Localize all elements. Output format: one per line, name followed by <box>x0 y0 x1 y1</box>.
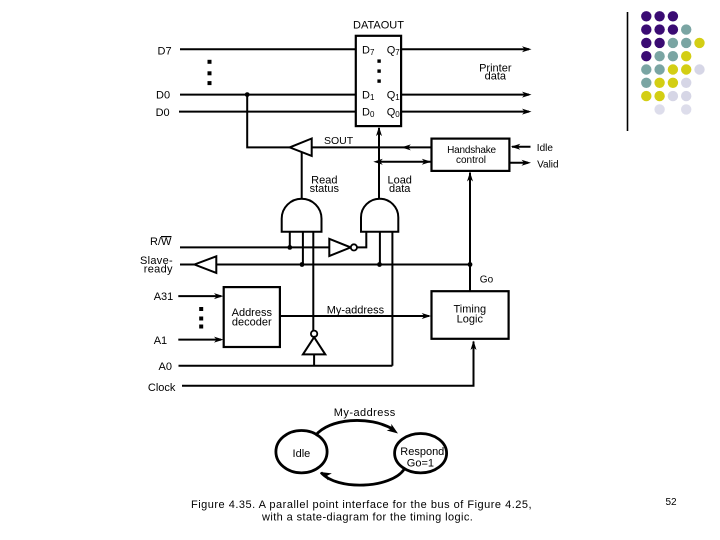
wire D0 (bit 1 row) <box>156 89 356 101</box>
svg-text:A0: A0 <box>159 361 172 373</box>
wire Go horizontal (slave-ready net) <box>216 262 470 267</box>
wire Q1 printer data <box>401 92 531 98</box>
svg-text:Go=1: Go=1 <box>407 458 434 470</box>
wire A31 <box>154 291 224 303</box>
wire load-data gate output to register clock <box>376 127 382 199</box>
svg-text:D7: D7 <box>158 46 172 58</box>
decoration: vertical rule and dot grid (template) <box>628 11 705 131</box>
wire A0 <box>159 361 393 373</box>
and-gate Read status <box>282 174 340 232</box>
svg-text:52: 52 <box>666 497 678 508</box>
address decoder box <box>224 287 280 347</box>
svg-text:D0: D0 <box>156 107 170 119</box>
buffer slave-ready driver <box>195 256 217 273</box>
wire Clock <box>148 341 477 395</box>
svg-text:A31: A31 <box>154 291 174 303</box>
svg-text:status: status <box>310 183 340 195</box>
svg-text:My-address: My-address <box>327 305 385 317</box>
svg-text:Idle: Idle <box>537 143 554 154</box>
wire SOUT feedback to D0 <box>247 95 290 148</box>
svg-text:with a state-diagram for the t: with a state-diagram for the timing logi… <box>261 512 473 524</box>
transition return (bottom arc) <box>318 468 404 485</box>
inverter on A0 <box>303 331 325 366</box>
svg-text:A1: A1 <box>154 335 167 347</box>
wire read gate input C (to A0 inverter) <box>312 232 314 331</box>
wire read gate enable to tri-state <box>301 153 303 199</box>
svg-text:data: data <box>485 70 507 82</box>
state Idle <box>276 431 327 473</box>
inverter on R/W <box>329 239 357 256</box>
wire Q0 printer data <box>401 109 531 115</box>
and-gate Load data <box>361 174 412 232</box>
wire Valid output <box>509 160 558 171</box>
svg-text:decoder: decoder <box>232 316 272 328</box>
svg-text:Valid: Valid <box>537 160 559 171</box>
svg-text:DATAOUT: DATAOUT <box>353 19 404 31</box>
transition My-address (top arc) <box>316 407 401 437</box>
wire A1 <box>154 335 224 347</box>
svg-text:control: control <box>456 155 486 166</box>
wire Q7 printer data <box>401 46 531 52</box>
wire D0 (bit 0 row) <box>156 107 356 119</box>
register DATAOUT <box>353 19 404 126</box>
svg-text:Logic: Logic <box>457 314 484 326</box>
svg-text:ready: ready <box>144 264 173 276</box>
svg-text:Idle: Idle <box>293 448 311 460</box>
wire read gate input A <box>289 232 291 248</box>
svg-text:Go: Go <box>480 275 494 286</box>
wire handshake load line <box>373 159 431 165</box>
label Printer data <box>479 63 512 83</box>
svg-text:Clock: Clock <box>148 382 176 394</box>
svg-text:D0: D0 <box>156 89 170 101</box>
wire inverter to load gate input A <box>357 232 366 248</box>
handshake control box <box>432 139 510 171</box>
svg-text:My-address: My-address <box>334 407 396 419</box>
wire Go vertical <box>467 172 494 291</box>
wire D7 <box>158 46 356 58</box>
state Respond Go=1 <box>395 434 447 473</box>
caption <box>191 499 532 524</box>
timing logic box <box>432 291 509 339</box>
svg-text:data: data <box>389 183 411 195</box>
wire handshake to SOUT net <box>312 144 432 150</box>
svg-text:SOUT: SOUT <box>324 135 354 147</box>
wire read gate input B <box>302 232 304 265</box>
tri-state buffer SOUT driver <box>290 139 312 156</box>
node junction on D0 line <box>245 92 250 97</box>
svg-text:Respond: Respond <box>400 446 444 458</box>
svg-text:R/W: R/W <box>150 236 172 248</box>
bus ellipsis dots <box>208 60 212 85</box>
svg-text:Figure 4.35. A parallel point: Figure 4.35. A parallel point interface … <box>191 499 532 511</box>
wire My-address <box>280 305 431 320</box>
wire Slave-ready <box>140 255 195 276</box>
wire load gate input B <box>379 232 381 265</box>
wire R/W <box>150 236 329 250</box>
wire Idle input <box>511 143 554 154</box>
address ellipsis dots <box>199 307 203 329</box>
wire load gate input C (to A0) <box>391 232 393 366</box>
